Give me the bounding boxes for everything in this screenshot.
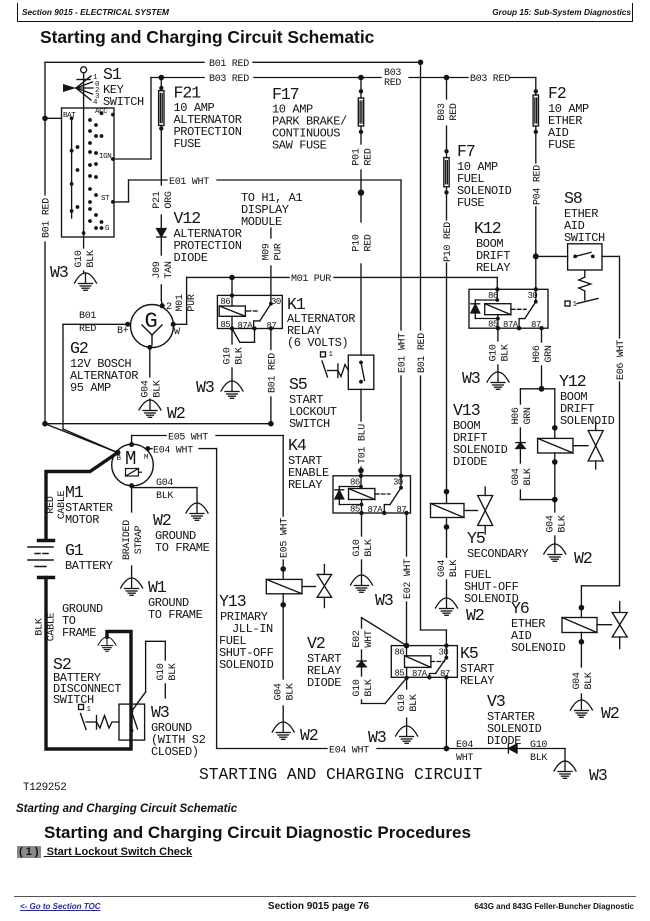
svg-text:BLK: BLK (364, 539, 375, 556)
svg-text:P10: P10 (352, 234, 363, 251)
wire M01 PUR (alternator W to K12-86) (173, 275, 497, 325)
svg-text:SOLENOID: SOLENOID (560, 414, 615, 428)
svg-text:86: 86 (395, 648, 405, 658)
svg-text:J09: J09 (152, 261, 163, 278)
wire K1 87A-85 ground tie (232, 329, 255, 382)
solenoid Y5 (431, 489, 478, 557)
footer center (0, 901, 637, 912)
battery G1 plates (28, 547, 53, 567)
svg-text:M: M (144, 454, 149, 462)
wire B01 RED top bus (45, 61, 204, 63)
svg-text:W3: W3 (368, 728, 386, 747)
wire B01 to starter B diagonal (45, 424, 118, 453)
svg-text:87A: 87A (368, 505, 384, 515)
svg-text:G: G (145, 309, 157, 334)
svg-text:P01: P01 (352, 148, 363, 165)
wire E04 WHT bottom bus (217, 749, 565, 762)
svg-text:87A: 87A (238, 321, 254, 331)
svg-text:B01 RED: B01 RED (417, 333, 428, 373)
ground W2 (alternator) (139, 400, 161, 417)
node B03-F7 junction (444, 75, 450, 81)
svg-text:85: 85 (488, 320, 498, 330)
svg-text:F7: F7 (457, 142, 475, 161)
valve symbol (Y13) (317, 565, 331, 608)
wire J09 to alternator terminal 2 (160, 285, 162, 300)
ground W3 (K5) (396, 726, 418, 743)
svg-text:BLK: BLK (35, 618, 46, 635)
svg-text:G10: G10 (352, 539, 363, 556)
svg-text:BLK: BLK (409, 694, 420, 711)
caption line (16, 803, 237, 815)
svg-text:G10: G10 (156, 663, 167, 680)
svg-text:S8: S8 (564, 189, 582, 208)
svg-text:MOTOR: MOTOR (65, 513, 99, 527)
svg-text:Y6: Y6 (511, 599, 529, 618)
svg-text:1: 1 (87, 706, 92, 714)
svg-text:V12: V12 (174, 209, 201, 228)
wire K5-87 to E04 bus (444, 677, 450, 751)
svg-text:1: 1 (573, 301, 578, 309)
header right (492, 7, 631, 17)
svg-text:CLOSED): CLOSED) (151, 745, 199, 759)
svg-text:H06: H06 (511, 407, 522, 424)
svg-text:SECONDARY: SECONDARY (467, 547, 528, 561)
key switch S1 box (62, 108, 115, 237)
svg-text:DIODE: DIODE (487, 734, 521, 748)
svg-text:G: G (105, 225, 110, 233)
section heading (44, 823, 471, 843)
svg-text:T01 BLU: T01 BLU (358, 424, 369, 464)
valve symbol (Y6) (612, 602, 627, 649)
svg-text:H06: H06 (532, 345, 543, 362)
svg-text:G10: G10 (488, 344, 499, 361)
svg-text:P10 RED: P10 RED (443, 222, 454, 262)
wire starter G04 to W2 (132, 488, 197, 503)
wire Y12 ground (554, 500, 556, 544)
svg-text:M: M (125, 448, 136, 470)
svg-text:TO FRAME: TO FRAME (155, 541, 210, 555)
wire B01 K1-87 horizontal (45, 423, 271, 425)
svg-text:SWITCH: SWITCH (564, 231, 605, 245)
svg-text:P21: P21 (152, 191, 163, 208)
svg-text:B01: B01 (79, 311, 96, 322)
wire label B01 RED (B+ stacked) (79, 311, 96, 335)
key switch contact dots (70, 111, 115, 235)
page title (40, 27, 374, 48)
wire key G to ground (83, 237, 85, 273)
alternator G2 (125, 303, 176, 350)
ground W2 (Y5) (436, 598, 458, 615)
svg-text:SOLENOID: SOLENOID (219, 658, 274, 672)
svg-text:GRN: GRN (544, 345, 555, 362)
wire key IGN to B03 (114, 158, 151, 160)
svg-text:STARTING AND CHARGING CIRCUIT: STARTING AND CHARGING CIRCUIT (199, 765, 483, 784)
svg-text:W3: W3 (589, 766, 607, 785)
svg-text:W2: W2 (574, 549, 592, 568)
wire label B03 RED (stacked at left) (384, 68, 401, 89)
svg-text:Y13: Y13 (219, 592, 246, 611)
svg-text:RED: RED (449, 103, 460, 120)
battery black cable (thick) (39, 578, 132, 750)
svg-text:V2: V2 (307, 634, 325, 653)
svg-text:BLK: BLK (235, 347, 246, 364)
svg-text:E04 WHT: E04 WHT (153, 446, 193, 457)
svg-text:DIODE: DIODE (307, 676, 341, 690)
svg-text:DIODE: DIODE (453, 455, 487, 469)
svg-text:RELAY: RELAY (476, 261, 510, 275)
relay K12 (469, 287, 548, 330)
svg-text:PUR: PUR (187, 294, 198, 311)
svg-text:E02 WHT: E02 WHT (403, 559, 414, 599)
wire P21 to V12 (160, 215, 162, 229)
svg-text:G10: G10 (74, 250, 85, 267)
switch S8 (565, 244, 620, 306)
wire Y5 ground (446, 557, 448, 598)
wire Y13 ground (282, 706, 284, 722)
ground W3 (K12) (487, 372, 509, 389)
svg-text:30: 30 (528, 291, 538, 301)
svg-text:W3: W3 (462, 369, 480, 388)
svg-text:B01 RED: B01 RED (42, 198, 53, 238)
step 1 link (17, 846, 192, 858)
wire Y6 ground (580, 694, 582, 700)
ground W3 (K4) (351, 575, 373, 592)
wire F17 to S5 (P10 RED) (358, 170, 364, 355)
svg-text:B01 RED: B01 RED (209, 59, 249, 70)
svg-text:V13: V13 (453, 401, 480, 420)
svg-text:BLK: BLK (168, 663, 179, 680)
svg-text:MODULE: MODULE (241, 215, 282, 229)
svg-text:G04: G04 (545, 515, 556, 532)
svg-text:M09: M09 (261, 243, 272, 260)
svg-text:G04: G04 (274, 683, 285, 700)
wire K4-87 E02 WHT (406, 513, 408, 646)
svg-text:W2: W2 (466, 606, 484, 625)
wire B01 RED left bus vertical (44, 62, 46, 195)
wire E01 WHT from key ST (114, 201, 129, 203)
svg-text:87: 87 (397, 505, 407, 515)
svg-text:87: 87 (440, 669, 450, 679)
wire label E04 WHT (at V3, stacked) (456, 740, 473, 764)
svg-text:SAW FUSE: SAW FUSE (272, 139, 327, 153)
svg-text:E04: E04 (456, 740, 473, 751)
svg-text:W3: W3 (196, 378, 214, 397)
svg-text:BLK: BLK (156, 491, 173, 502)
wire label G10 BLK (V3, stacked) (530, 740, 547, 764)
svg-text:PUR: PUR (273, 243, 284, 260)
K12 pin labels (488, 291, 541, 330)
svg-text:RELAY: RELAY (288, 478, 322, 492)
svg-text:SWITCH: SWITCH (53, 693, 94, 707)
svg-text:M01: M01 (175, 294, 186, 311)
node K1-87 wire junction (268, 421, 274, 427)
relay K5 (391, 643, 457, 680)
svg-text:85: 85 (350, 505, 360, 515)
wire E01 WHT vertical to K4-30 (400, 180, 402, 330)
svg-text:GRN: GRN (523, 407, 534, 424)
ground W1 (121, 578, 143, 595)
svg-text:RED: RED (79, 324, 96, 335)
chassis ground (battery loop) (98, 637, 116, 651)
ground W3 (key switch) (75, 273, 97, 290)
svg-text:K5: K5 (460, 644, 478, 663)
svg-text:RED: RED (384, 78, 401, 89)
valve symbol (Y5) (478, 487, 493, 534)
footer right (474, 902, 634, 911)
ground W2 (Y12) (544, 544, 566, 561)
svg-text:S5: S5 (289, 375, 307, 394)
battery red cable (thick) (39, 453, 118, 541)
key switch terminal labels (63, 108, 111, 233)
svg-text:E06 WHT: E06 WHT (616, 340, 627, 380)
svg-text:Y12: Y12 (559, 372, 586, 391)
svg-text:G04: G04 (511, 468, 522, 485)
key switch center shaft wire (83, 88, 85, 237)
wire alternator ground (149, 347, 151, 400)
fuse F21 (159, 75, 165, 185)
svg-text:W2: W2 (153, 511, 171, 530)
svg-text:WHT: WHT (364, 630, 375, 647)
svg-text:BAT: BAT (63, 112, 76, 120)
svg-text:B03 RED: B03 RED (209, 74, 249, 85)
svg-text:T129252: T129252 (23, 782, 66, 794)
svg-text:ST: ST (101, 195, 110, 203)
svg-text:85: 85 (220, 320, 230, 330)
svg-text:FUSE: FUSE (548, 138, 575, 152)
svg-text:SOLENOID: SOLENOID (511, 641, 566, 655)
svg-text:BLK: BLK (449, 560, 460, 577)
svg-text:BLK: BLK (530, 753, 547, 764)
wire E06 WHT (581, 256, 619, 617)
key switch BAT column wire (71, 118, 73, 218)
svg-text:W2: W2 (601, 704, 619, 723)
svg-text:30: 30 (439, 648, 449, 658)
svg-text:S1: S1 (103, 65, 122, 84)
svg-text:2: 2 (166, 302, 172, 313)
starter motor M1 (112, 442, 154, 488)
svg-text:G10: G10 (352, 679, 363, 696)
svg-text:W3: W3 (375, 591, 393, 610)
svg-text:BLK: BLK (364, 679, 375, 696)
solenoid Y13 (266, 579, 315, 679)
svg-text:Y5: Y5 (467, 529, 485, 548)
K4 pin labels (350, 478, 406, 516)
svg-text:86: 86 (350, 478, 360, 488)
wire F2 to S8 (533, 207, 568, 289)
ground W3 (V3) (554, 761, 576, 778)
ground W2 (starter) (186, 503, 208, 520)
svg-text:87: 87 (267, 321, 277, 331)
svg-text:V3: V3 (487, 692, 505, 711)
wire E05 WHT starter to Y13 (132, 436, 286, 580)
svg-text:TAN: TAN (164, 261, 175, 278)
svg-text:87A: 87A (412, 669, 428, 679)
svg-text:STRAP: STRAP (134, 525, 145, 554)
diode V2 branch (357, 618, 407, 704)
ground W2 (Y6) (570, 700, 592, 717)
ground W3 (K1) (221, 381, 243, 398)
svg-text:W: W (174, 327, 180, 338)
svg-text:FUSE: FUSE (174, 137, 201, 151)
svg-text:B+: B+ (117, 326, 129, 337)
svg-text:E01 WHT: E01 WHT (169, 177, 209, 188)
relay K1 (217, 277, 282, 330)
svg-text:E02: E02 (352, 630, 363, 647)
relay K4 (333, 474, 411, 516)
svg-text:G04: G04 (437, 560, 448, 577)
svg-text:G10: G10 (223, 347, 234, 364)
wire S2 to W3 ground loop (132, 641, 166, 711)
header left (22, 7, 169, 17)
svg-text:E04 WHT: E04 WHT (329, 746, 369, 757)
svg-text:85: 85 (395, 669, 405, 679)
diode V13 (516, 443, 558, 503)
svg-text:F21: F21 (174, 84, 202, 103)
svg-text:SWITCH: SWITCH (103, 95, 144, 109)
switch S5 (321, 352, 374, 390)
solenoid Y6 (562, 605, 612, 667)
svg-text:BATTERY: BATTERY (65, 559, 113, 573)
svg-text:G04: G04 (156, 478, 173, 489)
key switch S1 symbol (81, 67, 87, 73)
svg-text:RED: RED (364, 148, 375, 165)
footer rule (14, 896, 636, 897)
diode V3 (508, 744, 517, 753)
svg-text:FUSE: FUSE (457, 196, 484, 210)
svg-text:E05 WHT: E05 WHT (168, 433, 208, 444)
svg-text:BLK: BLK (584, 672, 595, 689)
svg-text:CABLE: CABLE (47, 612, 58, 641)
svg-text:RED: RED (364, 234, 375, 251)
svg-text:G04: G04 (140, 380, 151, 397)
svg-text:86: 86 (488, 291, 498, 301)
svg-text:P04 RED: P04 RED (532, 165, 543, 205)
svg-text:RED: RED (46, 496, 57, 513)
wire B01 RED main riser (421, 62, 447, 645)
svg-text:G10: G10 (530, 740, 547, 751)
svg-text:B03 RED: B03 RED (470, 74, 510, 85)
header rules (17, 3, 18, 22)
svg-text:G10: G10 (397, 694, 408, 711)
solenoid Y12 (538, 438, 588, 499)
svg-text:F17: F17 (272, 85, 299, 104)
wire K4-85 to ground (361, 513, 363, 575)
svg-text:K12: K12 (474, 219, 501, 238)
diode V12 (157, 229, 166, 256)
svg-text:BLK: BLK (523, 468, 534, 485)
svg-text:BLK: BLK (152, 380, 163, 397)
wire K12-87 H06 GRN to Y12/V13 (520, 328, 557, 442)
node B01 top right junction (418, 60, 424, 66)
svg-text:30: 30 (271, 297, 281, 307)
switch S2 battery disconnect (79, 704, 145, 740)
ground W2 (Y13) (272, 722, 294, 739)
svg-text:BLK: BLK (500, 344, 511, 361)
wire S5 to K4-86 (T01 BLU) (358, 389, 364, 475)
svg-text:E05 WHT: E05 WHT (280, 518, 291, 558)
svg-text:DIODE: DIODE (174, 251, 208, 265)
node B01 bottom junction (42, 421, 48, 427)
wire E04 WHT from starter M (148, 449, 217, 749)
fuse F7 (444, 78, 449, 221)
svg-text:95 AMP: 95 AMP (70, 381, 111, 395)
valve symbol (Y12) (588, 422, 603, 469)
wire K12-85 to ground (497, 328, 499, 372)
svg-text:BLK: BLK (557, 515, 568, 532)
svg-text:G1: G1 (65, 541, 84, 560)
svg-text:BRAIDED: BRAIDED (122, 520, 133, 560)
svg-text:CABLE: CABLE (57, 490, 68, 519)
wire label G04 BLK (starter, stacked) (156, 478, 173, 502)
svg-text:K4: K4 (288, 436, 307, 455)
fuse F2 (533, 78, 538, 164)
wire alternator B+ (63, 324, 128, 452)
footer left link (20, 902, 101, 911)
svg-text:BLK: BLK (286, 683, 297, 700)
wire M09 PUR (module to K1-30) (270, 228, 272, 295)
svg-text:WHT: WHT (456, 753, 473, 764)
svg-text:B03: B03 (437, 103, 448, 120)
svg-text:FRAME: FRAME (62, 626, 96, 640)
fuse F17 (358, 75, 364, 144)
svg-text:W3: W3 (151, 703, 169, 722)
K1 pin labels (220, 297, 281, 331)
svg-text:87A: 87A (503, 320, 519, 330)
svg-text:RELAY: RELAY (460, 674, 494, 688)
svg-text:M01 PUR: M01 PUR (291, 274, 331, 285)
wire K5-85 ground (406, 678, 408, 726)
svg-text:G2: G2 (70, 339, 88, 358)
svg-text:W1: W1 (148, 578, 167, 597)
svg-text:F2: F2 (548, 84, 566, 103)
wire F7 to Y5 (446, 263, 448, 492)
K5 pin labels (395, 648, 450, 680)
key switch position labels (93, 74, 100, 107)
wire B03 RED bus (151, 77, 204, 79)
svg-text:SWITCH: SWITCH (289, 417, 330, 431)
svg-text:30: 30 (393, 478, 403, 488)
node B01 BAT tap junction (42, 116, 48, 122)
svg-text:E01 WHT: E01 WHT (398, 333, 409, 373)
svg-text:87: 87 (531, 320, 541, 330)
wire BAT stub (45, 117, 62, 119)
wire K1-87 B01 RED vertical (270, 329, 272, 349)
svg-text:IGN: IGN (99, 153, 111, 161)
svg-text:BLK: BLK (86, 250, 97, 267)
svg-text:B: B (117, 455, 122, 463)
svg-text:W2: W2 (300, 726, 318, 745)
braided strap wire (131, 486, 133, 578)
svg-text:1: 1 (329, 351, 334, 359)
svg-text:(6 VOLTS): (6 VOLTS) (287, 336, 348, 350)
svg-text:TO FRAME: TO FRAME (148, 608, 203, 622)
svg-text:ORG: ORG (164, 191, 175, 208)
svg-text:G04: G04 (572, 672, 583, 689)
svg-text:W3: W3 (50, 263, 68, 282)
svg-text:86: 86 (220, 297, 230, 307)
svg-text:W2: W2 (167, 404, 185, 423)
svg-text:B01 RED: B01 RED (267, 353, 278, 393)
